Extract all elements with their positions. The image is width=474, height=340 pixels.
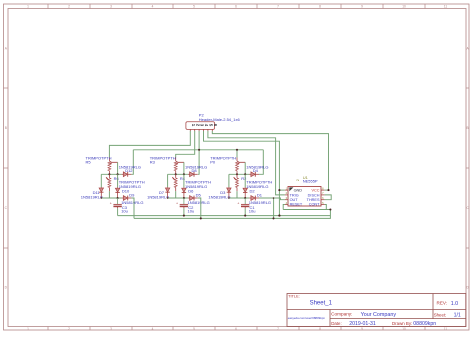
wire stage3 wiper column down to D2	[244, 174, 246, 187]
svg-text:08809kpn: 08809kpn	[413, 321, 436, 327]
svg-text:5: 5	[193, 327, 195, 331]
svg-text:2: 2	[68, 5, 70, 9]
svg-text:7: 7	[277, 5, 279, 9]
svg-text:Sheet_1: Sheet_1	[310, 300, 333, 306]
svg-text:1: 1	[27, 5, 29, 9]
diode D3 1N5819RLG	[227, 187, 231, 198]
svg-text:GND: GND	[294, 189, 303, 193]
svg-text:11: 11	[444, 5, 448, 9]
label D10 1N5819RLG	[119, 184, 141, 193]
label C1 10u	[249, 205, 256, 214]
junction net SEQ at pin3	[198, 149, 200, 151]
junction stage3 row at trimpot	[236, 173, 238, 175]
svg-text:10u: 10u	[121, 208, 128, 213]
diode D12 1N5819RLG	[122, 172, 132, 177]
capacitor C1 10u polarized	[237, 198, 249, 208]
label D4 1N5819RLG	[246, 164, 268, 173]
wire cap rail	[118, 215, 331, 217]
label R2 TRIMPOTPTH	[241, 176, 272, 185]
junction stage1 row at wiper	[117, 173, 119, 175]
capacitor C3 10u polarized	[110, 198, 122, 208]
wire stage1 row left drop to D11	[100, 174, 102, 187]
svg-text:2019-01-31: 2019-01-31	[349, 321, 376, 327]
svg-text:1N5819RLG: 1N5819RLG	[81, 194, 103, 199]
svg-text:Company:: Company:	[331, 312, 352, 317]
label R5 TRIMPOTPTH	[86, 155, 112, 164]
label U1 NE555P	[303, 175, 318, 184]
svg-text:4: 4	[152, 327, 154, 331]
svg-text:3: 3	[110, 5, 112, 9]
svg-text:9: 9	[361, 327, 363, 331]
svg-text:1: 1	[27, 327, 29, 331]
label R6 TRIMPOTPTH	[114, 176, 145, 185]
wire stage1 cap bottom to cap rail	[117, 208, 119, 215]
svg-text:R3: R3	[150, 160, 156, 165]
frame row ticks and letters	[4, 46, 470, 289]
wire stage2 row left drop to D7	[167, 174, 169, 187]
diode D1 1N5819RLG	[249, 196, 259, 201]
diode D9 1N5819RLG	[122, 196, 132, 201]
svg-text:D9: D9	[129, 192, 135, 197]
wire DISCH to THRES tie	[325, 195, 332, 200]
svg-text:Date:: Date:	[331, 321, 342, 326]
wire OUT net drop at x273.5	[273, 198, 275, 218]
label D1 1N5819RLG	[249, 192, 271, 205]
wire stage3 cap bottom to cap rail	[244, 208, 246, 215]
junction stage1 lower row left	[101, 197, 103, 199]
wire stage2 mid trimpot bottom drop	[175, 191, 177, 198]
wire stage1 wiper column down to D10	[117, 174, 119, 187]
timer U1 NE555P	[285, 186, 325, 206]
label C2 10u	[188, 205, 195, 214]
diode D11 1N5819RLG	[99, 187, 103, 198]
wire net SEQ horizontal	[133, 149, 263, 151]
junction VCC	[327, 189, 329, 191]
junction GND column at cap rail	[278, 215, 280, 217]
svg-text:Header-Male-2.54_1x6: Header-Male-2.54_1x6	[199, 117, 241, 122]
svg-text:B: B	[5, 126, 7, 130]
label D9 1N5819RLG	[121, 192, 143, 205]
svg-text:DISCH: DISCH	[308, 193, 320, 197]
svg-text:D8: D8	[192, 168, 198, 173]
svg-text:1N5819RLG: 1N5819RLG	[208, 194, 230, 199]
diode D2 1N5819RLG	[243, 187, 247, 198]
junction cap rail C1	[244, 215, 246, 217]
wire stage1 junction row	[101, 173, 121, 175]
trimpot P0 TRIMPOTPTH	[236, 158, 246, 175]
junction diode rail D5	[200, 217, 202, 219]
wire header pin2 to R3 top	[176, 131, 195, 158]
wire RESET to net F	[283, 205, 285, 210]
label D7 1N5819RLG	[147, 190, 169, 199]
junction stage3 row at wiper	[244, 173, 246, 175]
junction OUT net drop	[273, 197, 275, 199]
wire stage2 wiper column down to D6	[183, 174, 185, 187]
label P2	[199, 113, 241, 123]
svg-text:easyeda.com/user/08809kpn: easyeda.com/user/08809kpn	[288, 316, 326, 320]
label D8 1N5819RLG	[185, 164, 207, 173]
junction stage2 lower row at cap	[183, 197, 185, 199]
diode D10 1N5819RLG	[115, 187, 119, 198]
svg-text:7: 7	[277, 327, 279, 331]
wire GND pin to GND column	[279, 189, 285, 191]
wire CONT to net F	[325, 205, 327, 210]
trimpot R6 TRIMPOTPTH	[106, 174, 111, 191]
svg-text:Your Company: Your Company	[361, 312, 397, 318]
svg-text:10: 10	[402, 327, 406, 331]
junction stage2 lower row left	[167, 197, 169, 199]
wire stage3 lower row	[229, 197, 249, 199]
svg-text:REV:: REV:	[437, 301, 448, 306]
svg-text:6: 6	[235, 5, 237, 9]
wire stage3 wiper drop	[244, 162, 246, 174]
svg-text:1/1: 1/1	[454, 312, 461, 318]
wire stage1 lower row	[101, 197, 121, 199]
label D12 1N5819RLG	[119, 164, 141, 173]
wire header pin1 to R5 top	[109, 131, 190, 158]
label D6 1N5819RLG	[185, 184, 207, 193]
wire stage3 row left drop to D3	[228, 174, 230, 187]
svg-text:P0: P0	[210, 160, 216, 165]
junction stage1 lower row at cap	[117, 197, 119, 199]
wire stage2 cap bottom to cap rail	[183, 208, 185, 215]
svg-text:R5: R5	[86, 160, 92, 165]
junction stage3 lower row at cap	[244, 197, 246, 199]
wire stage1 mid trimpot bottom drop	[108, 191, 110, 198]
wire net F RESET return	[283, 209, 330, 211]
svg-text:VCC: VCC	[311, 189, 319, 193]
trimpot R4 TRIMPOTPTH	[172, 174, 177, 191]
svg-text:B: B	[467, 126, 469, 130]
svg-text:10u: 10u	[188, 208, 195, 213]
svg-text:3: 3	[110, 327, 112, 331]
junction diode rail OUT drop	[272, 217, 274, 219]
label D5 1N5819RLG	[188, 192, 210, 205]
wire D1 cathode to OUT and drop	[259, 198, 285, 200]
svg-text:9: 9	[361, 5, 363, 9]
svg-text:5: 5	[193, 5, 195, 9]
diode D6 1N5819RLG	[182, 187, 186, 198]
wire stage3 junction row	[229, 173, 249, 175]
svg-text:10u: 10u	[249, 208, 256, 213]
wire stage1 wiper drop	[117, 162, 119, 174]
label P0 TRIMPOTPTH	[210, 155, 236, 164]
wire D9 cathode drop to diode rail	[131, 198, 134, 218]
svg-text:10: 10	[402, 5, 406, 9]
svg-text:2: 2	[68, 327, 70, 331]
label D2 1N5819RLG	[246, 184, 268, 193]
junction GND pin	[278, 189, 280, 191]
svg-text:D5: D5	[196, 192, 202, 197]
diode D4 1N5819RLG	[249, 172, 259, 177]
wire header pin6 to VCC	[212, 131, 328, 190]
wire net SEQ right drop to D4 cathode	[259, 150, 263, 175]
junction net F right end	[329, 208, 331, 210]
junction cap rail GND column	[278, 215, 280, 217]
wire VCC stub to riser	[325, 189, 329, 191]
wire D8 cathode riser to net SEQ	[198, 150, 199, 175]
svg-text:CONT: CONT	[309, 203, 320, 207]
wire stage3 mid trimpot bottom drop	[236, 191, 238, 198]
junction net SEQ at P0 tap	[236, 149, 238, 151]
svg-text:D2: D2	[250, 188, 256, 193]
wire D5 cathode drop to diode rail	[198, 198, 201, 218]
wire header pin4 to GND column	[204, 131, 280, 216]
wire net SEQ left drop to D12 cathode	[131, 150, 133, 175]
capacitor C2 10u polarized	[176, 198, 188, 208]
title block	[287, 294, 466, 327]
svg-text:D12: D12	[125, 168, 133, 173]
svg-text:+: +	[110, 201, 112, 205]
label C3 10u	[121, 205, 128, 214]
junction stage3 lower row left	[228, 197, 230, 199]
junction cap rail C2	[183, 215, 185, 217]
svg-text:1.0: 1.0	[451, 301, 459, 307]
svg-text:TRIG: TRIG	[290, 193, 299, 197]
svg-text:D1: D1	[257, 192, 263, 197]
svg-text:D6: D6	[188, 188, 194, 193]
svg-text:11: 11	[444, 327, 448, 331]
title block texts	[288, 294, 461, 328]
svg-text:8: 8	[319, 5, 321, 9]
svg-text:OUT: OUT	[290, 198, 299, 202]
label D3 1N5819RLG	[208, 190, 230, 199]
trimpot R2 TRIMPOTPTH	[234, 174, 239, 191]
svg-text:Drawn By:: Drawn By:	[392, 321, 412, 326]
svg-text:NE555P: NE555P	[303, 179, 318, 184]
diode D8 1N5819RLG	[188, 172, 198, 177]
wire stage2 junction row	[168, 173, 188, 175]
pin 8 vertical marker	[296, 179, 300, 181]
svg-text:+: +	[176, 201, 178, 205]
svg-text:D4: D4	[253, 168, 259, 173]
svg-text:THRES: THRES	[307, 198, 320, 202]
junction stage2 row at trimpot	[175, 173, 177, 175]
svg-text:RESET: RESET	[290, 203, 303, 207]
diode D5 1N5819RLG	[188, 196, 198, 201]
junction stage2 row at wiper	[183, 173, 185, 175]
svg-text:+: +	[237, 201, 239, 205]
wire stage2 lower row	[168, 197, 188, 199]
junction stage1 row at trimpot	[108, 173, 110, 175]
wire stage2 wiper drop	[183, 162, 185, 174]
svg-text:8: 8	[319, 327, 321, 331]
wire net SEQ tap to P0 top	[236, 150, 238, 158]
svg-text:6: 6	[235, 327, 237, 331]
svg-text:TITLE:: TITLE:	[288, 294, 300, 299]
trimpot R3 TRIMPOTPTH	[174, 158, 184, 175]
label R4 TRIMPOTPTH	[180, 176, 211, 185]
label R3 TRIMPOTPTH	[150, 155, 176, 164]
wire diode rail	[134, 210, 330, 219]
trimpot R5 TRIMPOTPTH	[108, 158, 118, 175]
svg-text:2: 2	[296, 179, 300, 181]
svg-text:Sheet:: Sheet:	[434, 312, 447, 317]
wire header pin5 to TRIG	[208, 131, 285, 195]
label D11 1N5819RLG	[81, 190, 103, 199]
connector P2 Header-Male 2.54_1x6	[186, 122, 218, 131]
svg-text:1N5819RLG: 1N5819RLG	[147, 194, 169, 199]
diode D7 1N5819RLG	[165, 187, 169, 198]
svg-text:4: 4	[152, 5, 154, 9]
wire header pin3 down to net SEQ	[198, 131, 200, 150]
